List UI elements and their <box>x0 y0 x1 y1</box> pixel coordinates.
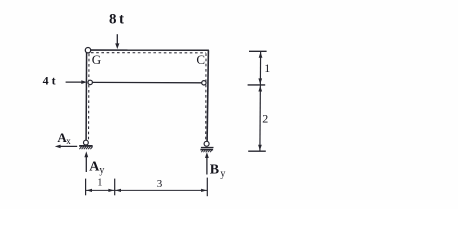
load arrow 4 t (rightward) <box>66 81 84 83</box>
svg-text:1: 1 <box>264 61 270 75</box>
bottom dimension tick at A <box>85 179 87 196</box>
svg-text:8 t: 8 t <box>109 12 124 28</box>
right dimension arrowheads <box>259 52 263 58</box>
reaction arrow A_x (leftward) <box>59 145 78 147</box>
load arrow 8 t (downward) <box>116 34 118 45</box>
svg-text:G: G <box>92 52 101 67</box>
hinge right end of tie beam <box>202 81 206 85</box>
hinge at G (top-left pin) <box>85 48 90 53</box>
svg-text:1: 1 <box>97 177 102 188</box>
bottom dimension tick (intermediate) <box>114 179 116 196</box>
member left column (solid) <box>85 53 88 141</box>
svg-text:2: 2 <box>262 112 268 126</box>
member left column axis (dashed) <box>88 54 91 140</box>
svg-text:B: B <box>210 162 219 177</box>
svg-text:x: x <box>66 136 71 146</box>
member top beam G-C (solid) <box>90 49 208 51</box>
svg-text:y: y <box>220 169 225 180</box>
member tie beam (middle) <box>92 81 201 83</box>
right dimension vertical line <box>259 51 262 151</box>
svg-text:4 t: 4 t <box>43 73 56 87</box>
svg-text:y: y <box>99 165 104 176</box>
right dimension top tick <box>249 50 267 52</box>
reaction arrow A_y (upward) <box>85 155 87 173</box>
bottom dimension line segment 1 <box>86 189 114 191</box>
hinge left end of tie beam <box>88 80 92 84</box>
pin support A <box>79 140 92 149</box>
reaction arrow B_y (upward) <box>206 155 208 174</box>
right dimension bottom tick <box>248 150 266 152</box>
roller support B <box>200 141 213 152</box>
bottom dimension tick at B <box>206 178 208 197</box>
member top beam axis (dashed) <box>91 52 206 54</box>
svg-text:C: C <box>196 52 205 67</box>
right dimension middle tick <box>248 84 266 86</box>
member right column axis (dashed) <box>205 53 207 139</box>
svg-text:3: 3 <box>157 178 163 190</box>
bottom dimension line segment 3 <box>115 189 207 191</box>
member right column (solid) <box>207 50 208 141</box>
